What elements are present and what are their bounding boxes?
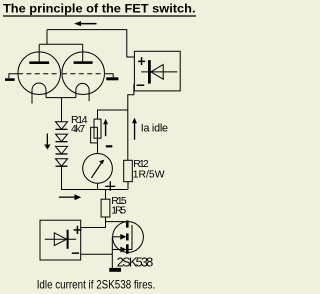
svg-text:4k7: 4k7 xyxy=(71,124,85,135)
svg-text:The principle of the FET switc: The principle of the FET switch. xyxy=(3,1,196,15)
svg-text:1R5: 1R5 xyxy=(111,205,126,216)
svg-text:Idle current if 2SK538 fires.: Idle current if 2SK538 fires. xyxy=(37,277,156,291)
svg-text:R12: R12 xyxy=(133,159,149,170)
svg-text:Ia idle: Ia idle xyxy=(141,123,168,135)
svg-text:2SK538: 2SK538 xyxy=(117,255,154,269)
svg-text:1R/5W: 1R/5W xyxy=(133,170,165,181)
